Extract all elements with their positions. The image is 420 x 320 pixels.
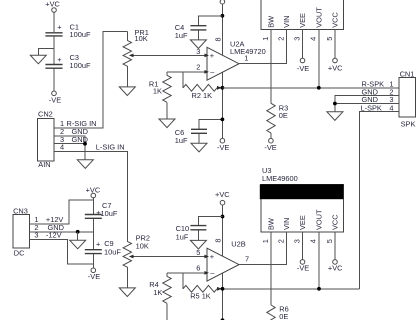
- wire to C6: [199, 119, 222, 128]
- svg-text:R5 1K: R5 1K: [190, 292, 211, 301]
- junction feedback node: [221, 86, 225, 90]
- CN1 pin1 label R-SPK: [362, 80, 394, 89]
- wire +VC supply column: [221, 4, 223, 138]
- svg-text:VCC: VCC: [331, 214, 340, 230]
- ground (C1/C3 midpoint): [30, 55, 46, 64]
- svg-text:-VE: -VE: [88, 272, 100, 281]
- svg-text:8: 8: [213, 37, 222, 41]
- U2A pin 8 number: [213, 37, 222, 41]
- wire pin5 VCC down: [334, 30, 336, 59]
- svg-text:VIN: VIN: [282, 15, 291, 27]
- op-amp U2A LME49720: [207, 39, 266, 80]
- ground (CN1): [327, 112, 343, 121]
- svg-text:+: +: [210, 252, 214, 261]
- wire CN1 pin2 GND: [335, 96, 399, 112]
- CN2 pin 3 label GND: [60, 135, 88, 144]
- power +VC (top left): [45, 0, 60, 12]
- svg-text:2: 2: [196, 62, 200, 71]
- svg-text:+: +: [96, 240, 100, 249]
- U2A pin 2 number: [196, 62, 209, 74]
- svg-text:1uF: 1uF: [175, 136, 188, 145]
- resistor R4 1K: [149, 273, 171, 320]
- junction C?? tap bottom edge: [221, 318, 225, 320]
- CN2 pin 2 label GND: [60, 127, 88, 136]
- resistor R5 1K: [183, 273, 223, 301]
- U2B pin 5 number: [196, 248, 209, 258]
- ground (R1): [159, 119, 175, 128]
- svg-text:-VE: -VE: [264, 143, 276, 152]
- CN3 pin1 label +12V: [34, 215, 63, 224]
- svg-text:DC: DC: [14, 248, 25, 257]
- junction CN2 gnd: [83, 142, 87, 146]
- svg-text:CN2: CN2: [38, 109, 53, 118]
- wire CN1 pin3 GND: [335, 103, 399, 105]
- wire output row bottom: [223, 288, 360, 290]
- svg-text:+: +: [57, 23, 61, 32]
- svg-text:10K: 10K: [135, 34, 148, 43]
- wire to C4: [198, 16, 222, 25]
- U3 pin numbers 1-5: [261, 239, 334, 243]
- ground (CN3 gnd): [70, 240, 86, 249]
- svg-text:R2 1K: R2 1K: [192, 91, 213, 100]
- ground (C4): [190, 40, 206, 49]
- svg-text:1: 1: [261, 37, 270, 41]
- wire U2A -in: [167, 71, 207, 73]
- wire CN2 pin3 GND: [54, 143, 85, 145]
- U2B pin 6 number: [196, 263, 209, 274]
- wire C1 to C3: [53, 36, 55, 64]
- svg-text:U2B: U2B: [231, 240, 245, 249]
- wire PR2 wiper to U2B +in: [129, 255, 207, 259]
- svg-text:LME49600: LME49600: [262, 174, 298, 183]
- U2A pin 3 number: [196, 47, 209, 57]
- wire C7 to C9: [92, 219, 94, 249]
- wire U2B out to U3 VIN: [239, 232, 287, 265]
- svg-text:1uF: 1uF: [176, 232, 189, 241]
- CN2 pin 4 label L-SIG IN: [60, 143, 125, 152]
- svg-text:BW: BW: [267, 16, 276, 28]
- wire U3 pin5 VCC down: [334, 232, 336, 260]
- U2B pin 7 number: [245, 255, 249, 264]
- svg-text:4: 4: [309, 239, 318, 243]
- svg-text:2: 2: [277, 37, 286, 41]
- svg-text:0E: 0E: [279, 111, 288, 120]
- power -VE (pin3): [297, 58, 309, 73]
- wire pin1 BW down: [270, 30, 272, 104]
- svg-text:6: 6: [196, 263, 200, 272]
- svg-text:8: 8: [213, 238, 222, 242]
- wire output row to CN1: [222, 87, 399, 89]
- U2A pin 1 number: [244, 53, 248, 62]
- connector CN1: [399, 70, 415, 129]
- junction C4 tap: [221, 14, 225, 18]
- U2B pin 8 number: [213, 238, 222, 242]
- svg-text:+VC: +VC: [328, 64, 343, 73]
- resistor R6 0E: [267, 305, 289, 320]
- buffer U2 box (top, cut off): [261, 0, 344, 30]
- CN1 pin4 label L-SPK: [361, 103, 394, 112]
- svg-text:1: 1: [261, 239, 270, 243]
- svg-text:3: 3: [292, 37, 301, 41]
- svg-text:4: 4: [309, 37, 318, 41]
- svg-text:AIN: AIN: [38, 160, 50, 169]
- connector CN2: [38, 109, 54, 169]
- svg-text:1uF: 1uF: [175, 31, 188, 40]
- junction CN3 gnd: [76, 230, 80, 234]
- wire CN3 pin1 +12V: [30, 200, 94, 224]
- svg-text:1: 1: [244, 53, 248, 62]
- junction U3 VOUT/output: [317, 287, 321, 291]
- buffer pin numbers 1-5: [261, 37, 334, 41]
- svg-text:VEE: VEE: [298, 215, 307, 230]
- svg-text:10uF: 10uF: [101, 209, 118, 218]
- ground (PR2): [119, 288, 135, 297]
- svg-text:+VC: +VC: [328, 264, 343, 273]
- wire +VC supply column (bottom): [222, 205, 224, 320]
- wire CN1 pin4 L-SPK long: [359, 111, 399, 288]
- svg-text:VCC: VCC: [331, 12, 340, 28]
- svg-text:VEE: VEE: [298, 13, 307, 28]
- wire U3 pin1 BW down: [270, 232, 272, 305]
- capacitor C1 100uF: [45, 23, 91, 40]
- wire U3 pin4 VOUT down: [318, 232, 320, 289]
- svg-text:-VE: -VE: [217, 143, 229, 152]
- power -VE (supply column bottom): [217, 138, 229, 152]
- svg-text:10uF: 10uF: [104, 247, 121, 256]
- power -VE (R3): [264, 138, 276, 152]
- power -VE (U3 pin3): [297, 260, 309, 273]
- junction C6 tap: [221, 118, 225, 122]
- ground (CN2): [77, 160, 93, 169]
- svg-text:1K: 1K: [153, 87, 162, 96]
- CN3 pin2 label GND: [34, 223, 64, 232]
- capacitor C4 1uF: [175, 23, 207, 40]
- svg-text:3: 3: [292, 239, 301, 243]
- svg-text:+VC: +VC: [45, 0, 60, 9]
- svg-text:VOUT: VOUT: [314, 7, 323, 28]
- svg-text:-VE: -VE: [297, 264, 309, 273]
- junction C10 tap: [221, 215, 225, 219]
- CN3 pin3 label -12V: [34, 231, 61, 240]
- power +VC (top, cut): [220, 0, 225, 4]
- power +VC (U3 pin5): [328, 260, 343, 273]
- wire U2B -in: [167, 272, 207, 274]
- svg-text:-VE: -VE: [297, 64, 309, 73]
- svg-text:0E: 0E: [279, 312, 288, 320]
- potentiometer PR1 10K: [123, 28, 149, 87]
- junction CN1 gnd: [333, 102, 337, 106]
- svg-text:1K: 1K: [153, 288, 162, 297]
- resistor R2 1K: [183, 72, 222, 100]
- wire U3 pin3 VEE down: [302, 232, 304, 260]
- power +VC (C7 column): [86, 185, 101, 198]
- junction feedback node bottom: [221, 287, 225, 291]
- svg-text:-VE: -VE: [49, 96, 61, 105]
- power -VE (below C3): [49, 91, 61, 105]
- wire CN2 pin1 R-SIG: [54, 32, 127, 128]
- wire to ground tap: [38, 49, 54, 56]
- power +VC (pin5): [328, 58, 343, 72]
- ground (C10): [190, 240, 206, 249]
- svg-text:10K: 10K: [136, 242, 149, 251]
- capacitor C7 10uF: [85, 201, 118, 218]
- svg-text:BW: BW: [267, 218, 276, 230]
- wire CN2 pin4 L-SIG: [54, 152, 127, 242]
- svg-text:+VC: +VC: [215, 190, 230, 199]
- CN1 pin3 label GND: [362, 95, 394, 104]
- wire PR1 wiper to U2A +in: [129, 54, 207, 58]
- svg-text:+: +: [210, 51, 214, 60]
- potentiometer PR2 10K: [123, 233, 150, 288]
- svg-text:+: +: [57, 55, 61, 64]
- svg-text:5: 5: [196, 248, 200, 257]
- wire U2A out to buffer VIN: [239, 30, 287, 64]
- svg-text:7: 7: [245, 255, 249, 264]
- wire to C10: [198, 217, 222, 226]
- op-amp U2B: [207, 240, 246, 282]
- wire pin3 VEE down: [302, 30, 304, 59]
- ground (PR1): [119, 87, 135, 96]
- svg-text:3: 3: [196, 47, 200, 56]
- svg-text:5: 5: [325, 37, 334, 41]
- ground (C6): [191, 143, 207, 152]
- capacitor C3 100uF: [45, 53, 91, 70]
- capacitor C10 1uF: [176, 224, 207, 241]
- svg-text:100uF: 100uF: [70, 61, 91, 70]
- capacitor C9 10uF: [85, 239, 122, 256]
- power +VC (U2B supply): [215, 190, 230, 205]
- wire +VC to C7: [92, 198, 94, 214]
- svg-text:VIN: VIN: [282, 218, 291, 230]
- svg-text:VOUT: VOUT: [314, 209, 323, 230]
- svg-text:L-SIG IN: L-SIG IN: [96, 143, 125, 152]
- wire pin4 VOUT down: [318, 30, 320, 88]
- resistor R3 0E: [267, 103, 288, 138]
- power -VE (C9): [88, 268, 100, 281]
- buffer U3 LME49600: [260, 166, 344, 232]
- resistor R1 1K: [149, 72, 171, 119]
- wire gnd stub: [77, 232, 79, 240]
- svg-text:SPK: SPK: [401, 119, 416, 128]
- wire CN3 pin3 -12V: [30, 240, 94, 264]
- svg-text:5: 5: [325, 239, 334, 243]
- CN1 pin2 label GND: [362, 87, 394, 96]
- wire C3 to -VE: [53, 69, 55, 91]
- svg-text:2: 2: [277, 239, 286, 243]
- capacitor C6 1uF: [175, 128, 207, 145]
- wire CN3 pin2 GND: [30, 231, 94, 233]
- wire CN2 pin2 GND: [54, 136, 85, 160]
- wire +VC to C1: [53, 12, 55, 32]
- junction VOUT/output: [317, 86, 321, 90]
- connector CN3: [13, 207, 29, 258]
- CN2 pin 1 label R-SIG IN: [60, 119, 96, 128]
- wire C9 to -VE: [92, 254, 94, 268]
- svg-text:100uF: 100uF: [70, 30, 91, 39]
